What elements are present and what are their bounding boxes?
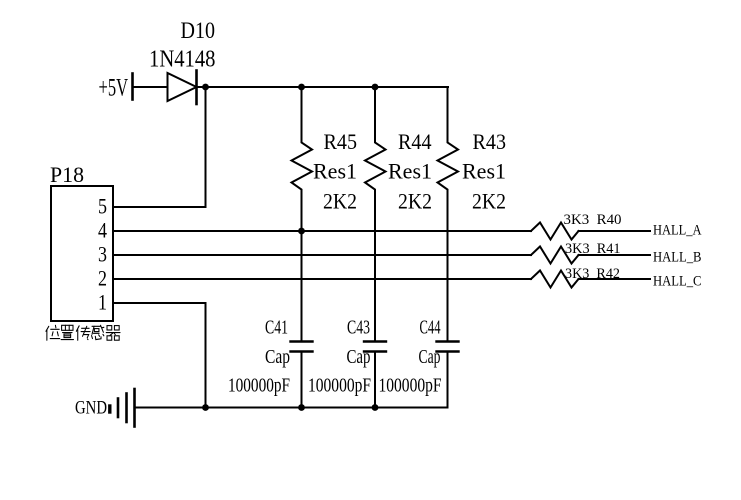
- glyph 传: [76, 326, 90, 341]
- wire R41 to HALL_B: [579, 254, 651, 256]
- wire diode junction down to pin5: [205, 87, 207, 207]
- svg-text:HALL_B: HALL_B: [653, 250, 702, 266]
- svg-text:3K3 R42: 3K3 R42: [565, 266, 620, 282]
- junction ground rail C43: [372, 404, 379, 411]
- glyph 置: [61, 325, 73, 339]
- junction ground rail C41: [298, 404, 305, 411]
- ground rail wire: [135, 407, 448, 409]
- capacitor C44 top plate: [437, 340, 459, 342]
- capacitor C41 top plate: [291, 340, 313, 342]
- junction top rail R45: [298, 84, 305, 91]
- svg-text:2: 2: [98, 266, 107, 291]
- svg-text:4: 4: [98, 218, 107, 243]
- wire +5V to diode: [133, 86, 168, 88]
- capacitor C43 top plate: [364, 340, 386, 342]
- svg-text:D10: D10: [181, 18, 216, 43]
- svg-text:Res1: Res1: [388, 159, 432, 184]
- resistor R43 body: [438, 87, 459, 341]
- svg-text:R45: R45: [324, 129, 358, 154]
- svg-text:HALL_A: HALL_A: [653, 223, 702, 239]
- svg-text:3: 3: [98, 242, 107, 267]
- svg-text:Res1: Res1: [313, 159, 357, 184]
- wire pin2 HALL_C: [113, 278, 531, 280]
- svg-text:C41: C41: [265, 317, 288, 339]
- connector P18 box: [51, 186, 113, 321]
- resistor R44 body: [365, 87, 386, 341]
- wire C41 to rail: [301, 352, 303, 408]
- glyph 位: [46, 325, 60, 340]
- svg-text:3K3 R41: 3K3 R41: [565, 241, 621, 257]
- svg-text:R43: R43: [473, 129, 507, 154]
- svg-text:+5V: +5V: [99, 75, 129, 102]
- svg-text:HALL_C: HALL_C: [653, 274, 702, 290]
- svg-text:100000pF: 100000pF: [308, 375, 371, 397]
- wire pin5: [113, 206, 206, 208]
- capacitor C41 bottom plate: [291, 350, 313, 352]
- svg-text:1N4148: 1N4148: [149, 47, 216, 73]
- junction ground rail pin1: [202, 404, 209, 411]
- glyph 感: [92, 325, 104, 339]
- ground symbol bars: [108, 406, 111, 412]
- svg-text:3K3 R40: 3K3 R40: [564, 212, 622, 228]
- junction diode cathode node: [202, 84, 209, 91]
- resistor R41 body: [531, 247, 579, 264]
- svg-text:100000pF: 100000pF: [228, 375, 290, 397]
- junction top rail R44: [372, 84, 379, 91]
- svg-text:C44: C44: [420, 317, 441, 339]
- svg-text:2K2: 2K2: [323, 189, 357, 214]
- diode D10 cathode bar: [195, 71, 198, 105]
- junction R45 pin4: [298, 228, 305, 235]
- wire C43 to rail: [374, 352, 376, 408]
- svg-text:Res1: Res1: [462, 159, 506, 184]
- connector label 位置传感器 hand-drawn glyphs: [46, 325, 120, 340]
- resistor R42 body: [531, 271, 579, 288]
- svg-text:R44: R44: [398, 129, 432, 154]
- wire top rail: [197, 86, 449, 88]
- capacitor C44 bottom plate: [437, 350, 459, 352]
- capacitor C43 bottom plate: [364, 350, 386, 352]
- svg-text:C43: C43: [347, 317, 370, 339]
- svg-text:Cap: Cap: [347, 346, 371, 368]
- power port +5V bar: [131, 74, 134, 100]
- svg-text:5: 5: [98, 194, 107, 219]
- wire C44 to rail: [447, 352, 449, 408]
- svg-text:Cap: Cap: [265, 346, 290, 368]
- wire pin4 HALL_A: [113, 230, 531, 232]
- svg-text:Cap: Cap: [419, 346, 441, 368]
- svg-text:2K2: 2K2: [398, 189, 432, 214]
- resistor R45 body: [292, 87, 313, 341]
- svg-text:GND: GND: [75, 398, 107, 419]
- wire pin1 down to ground rail: [113, 303, 206, 408]
- svg-text:P18: P18: [50, 162, 84, 187]
- svg-text:2K2: 2K2: [472, 189, 506, 214]
- svg-text:1: 1: [98, 290, 107, 315]
- wire R40 to HALL_A: [579, 230, 651, 232]
- wire pin3 HALL_B: [113, 254, 531, 256]
- glyph 器: [106, 326, 120, 341]
- svg-text:100000pF: 100000pF: [379, 375, 442, 397]
- resistor R40 body: [531, 223, 579, 240]
- diode D10 triangle: [168, 73, 197, 101]
- wire R42 to HALL_C: [579, 278, 651, 280]
